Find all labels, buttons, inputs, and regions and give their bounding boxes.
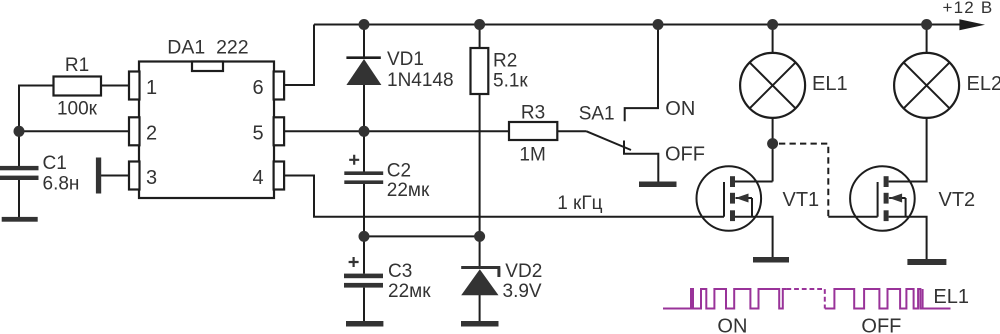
- wire VT1 body link: [736, 198, 753, 217]
- ground VD2: [461, 321, 499, 327]
- svg-text:OFF: OFF: [861, 315, 901, 334]
- svg-text:1N4148: 1N4148: [387, 70, 454, 91]
- node junction dot left: [14, 126, 25, 137]
- svg-text:ON: ON: [665, 98, 695, 120]
- ground SA1: [639, 182, 677, 188]
- transistor VT2: [850, 166, 915, 231]
- svg-text:R1: R1: [65, 55, 89, 76]
- svg-text:100к: 100к: [57, 99, 98, 120]
- svg-text:3: 3: [146, 167, 157, 189]
- op-amp/timer IC DA1 body: [139, 62, 274, 199]
- wire VT2 drain stub to EL2: [889, 118, 927, 182]
- wire VT2 gate lead: [828, 216, 877, 218]
- wire SA1 ON contact to rail: [625, 25, 658, 122]
- IC pin 6 stub: [274, 72, 285, 100]
- wire pin3 ground lead: [101, 175, 130, 177]
- svg-text:22мк: 22мк: [388, 281, 431, 302]
- svg-text:VD2: VD2: [505, 261, 542, 282]
- svg-text:5: 5: [253, 123, 264, 145]
- switch SA1 lever: [587, 131, 632, 150]
- svg-text:EL1: EL1: [933, 286, 969, 308]
- zener diode VD2: [461, 268, 500, 278]
- wire R2 bottom lead: [479, 94, 481, 236]
- svg-text:5.1к: 5.1к: [493, 71, 528, 92]
- junction dot VD1 rail: [359, 19, 370, 30]
- ground VT1: [753, 257, 789, 263]
- wire VT2 body link: [889, 198, 906, 217]
- junction dot EL1 drain: [767, 138, 778, 149]
- svg-text:DA1 222: DA1 222: [167, 36, 248, 58]
- svg-text:6: 6: [253, 77, 264, 99]
- capacitor C3: [349, 257, 359, 267]
- IC pin 3 stub: [129, 162, 140, 190]
- +12V arrow: [959, 19, 985, 30]
- wire SA1 OFF contact to ground: [624, 141, 658, 182]
- resistor R3: [509, 122, 557, 140]
- svg-text:VD1: VD1: [387, 49, 424, 70]
- svg-text:C3: C3: [388, 261, 412, 282]
- svg-text:R2: R2: [493, 51, 517, 72]
- junction dot EL1 rail: [767, 19, 778, 30]
- svg-text:OFF: OFF: [665, 144, 705, 166]
- waveform EL1: [663, 289, 951, 309]
- wire R1 right lead to pin1: [101, 85, 130, 87]
- junction dot SA1 rail: [653, 19, 664, 30]
- wire EL1 branch drain: [772, 25, 774, 182]
- wire dashed EL1 to VT2 gate: [779, 144, 828, 217]
- wire pin5 line to R3: [284, 130, 509, 132]
- wire C2 bottom lead: [363, 184, 365, 236]
- junction dot C2 bottom: [359, 231, 370, 242]
- svg-text:6.8н: 6.8н: [43, 174, 80, 195]
- IC pin 2 stub: [129, 117, 140, 145]
- svg-text:C1: C1: [43, 153, 67, 174]
- wire R3 right lead: [557, 130, 586, 132]
- svg-text:+12 В: +12 В: [943, 0, 994, 17]
- svg-text:1 кГц: 1 кГц: [557, 193, 602, 214]
- wire pin4 to 1kHz line: [284, 176, 724, 217]
- junction dot EL2 rail: [921, 19, 932, 30]
- svg-text:4: 4: [253, 167, 264, 189]
- svg-text:EL2: EL2: [967, 73, 1000, 95]
- wire VD2 top lead: [479, 236, 481, 266]
- wire C3 top lead: [363, 236, 365, 273]
- wire C3 bottom lead: [363, 288, 365, 322]
- wire top rail +12V: [314, 24, 960, 26]
- lamp EL1: [740, 53, 805, 118]
- IC pin 1 stub: [129, 72, 140, 100]
- svg-text:22мк: 22мк: [387, 180, 430, 201]
- wire R1 left lead and left vertical: [19, 86, 54, 167]
- resistor R1: [54, 77, 102, 96]
- lamp EL2: [894, 53, 959, 118]
- ground C3: [346, 321, 383, 327]
- svg-text:VT1: VT1: [783, 189, 820, 211]
- wire node line C2-C3-VD2: [364, 235, 480, 237]
- svg-text:3.9V: 3.9V: [503, 281, 542, 302]
- junction dot VD2 node: [474, 231, 485, 242]
- wire pin6 to rail: [284, 25, 314, 86]
- svg-text:ON: ON: [717, 315, 747, 334]
- svg-text:VT2: VT2: [939, 189, 976, 211]
- capacitor C1: [0, 166, 39, 170]
- wire VT2 source stub to ground: [889, 217, 927, 260]
- IC pin 5 stub: [274, 117, 285, 145]
- wire C2 top lead: [363, 131, 365, 171]
- svg-text:1M: 1M: [519, 145, 545, 166]
- ground pin3 bar: [96, 158, 101, 194]
- junction dot R2 rail: [474, 19, 485, 30]
- IC notch mark: [192, 62, 223, 72]
- capacitor C2: [349, 155, 359, 165]
- svg-text:1: 1: [146, 77, 157, 99]
- svg-text:2: 2: [146, 123, 157, 145]
- wire VD1 top lead: [363, 25, 365, 57]
- ground VT2: [907, 259, 946, 265]
- wire VD2 bottom lead: [479, 295, 481, 322]
- svg-text:C2: C2: [387, 161, 411, 182]
- svg-text:SA1: SA1: [579, 104, 615, 125]
- wire node to pin2: [19, 130, 130, 132]
- IC pin 4 stub: [274, 162, 285, 190]
- wire EL2 top lead: [926, 25, 928, 54]
- wire R2 top lead: [479, 25, 481, 49]
- diode VD1 1N4148: [346, 56, 380, 59]
- wire VT1 drain stub: [735, 181, 773, 183]
- wire VD1 anode lead: [363, 85, 365, 131]
- svg-text:R3: R3: [521, 103, 545, 124]
- ground C1: [2, 217, 38, 222]
- junction dot VD1 anode: [359, 126, 370, 137]
- wire VT1 source stub to ground: [735, 217, 773, 258]
- svg-text:EL1: EL1: [812, 73, 848, 95]
- resistor R2: [471, 48, 489, 94]
- transistor VT1: [697, 166, 762, 231]
